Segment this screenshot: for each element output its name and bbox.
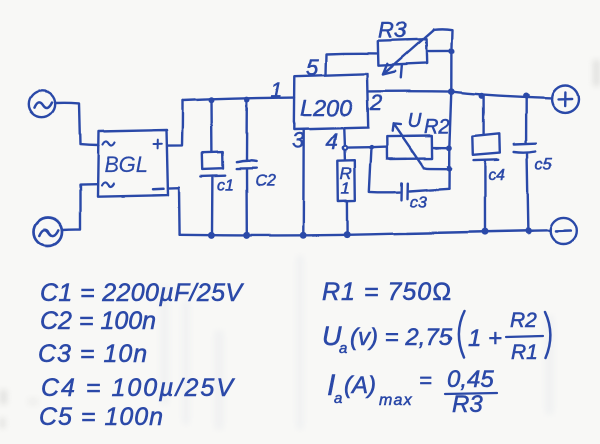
junction dot pin2 rail / C4 bbox=[479, 93, 485, 99]
AC input terminal TOP (source symbol) bbox=[29, 91, 55, 117]
junction dot bottom rail / C4 bbox=[482, 228, 489, 235]
junction dot bottom rail / pin3 bbox=[300, 232, 307, 239]
BGL pin mark ~ (top left) bbox=[103, 141, 115, 145]
svg-text:R1 = 750Ω: R1 = 750Ω bbox=[322, 278, 452, 306]
svg-text:a: a bbox=[339, 340, 347, 357]
svg-text:3: 3 bbox=[292, 128, 305, 153]
resistor R2 (adjustable) bbox=[387, 123, 432, 167]
pin 5 wire bbox=[326, 53, 377, 74]
svg-text:=: = bbox=[419, 368, 432, 393]
wire R2 wiper bottom bbox=[424, 166, 448, 169]
junction dot bottom rail / C5 bbox=[525, 227, 532, 234]
pin 2 rail wire to + terminal bbox=[368, 91, 551, 98]
capacitor C2 bbox=[237, 100, 256, 235]
svg-text:c3: c3 bbox=[410, 194, 427, 211]
svg-text:BGL: BGL bbox=[104, 152, 148, 177]
junction dot bottom rail / C1 bbox=[208, 232, 215, 239]
wire R3 right terminal bbox=[426, 50, 451, 53]
svg-text:1: 1 bbox=[341, 179, 350, 198]
svg-text:1 +: 1 + bbox=[468, 325, 502, 352]
svg-text:C1 = 2200µF/25V: C1 = 2200µF/25V bbox=[40, 279, 244, 307]
svg-text:c5: c5 bbox=[535, 156, 552, 173]
svg-text:R3: R3 bbox=[378, 18, 407, 43]
svg-text:(v) = 2,75: (v) = 2,75 bbox=[350, 324, 453, 351]
svg-text:max: max bbox=[379, 392, 413, 409]
svg-text:R2: R2 bbox=[510, 309, 537, 332]
svg-text:L200: L200 bbox=[300, 95, 352, 121]
pin 4 node (open circle) bbox=[343, 146, 347, 150]
BGL pin mark - (bottom right) bbox=[153, 187, 164, 190]
svg-text:C5 = 100n: C5 = 100n bbox=[39, 403, 164, 431]
svg-text:R1: R1 bbox=[511, 341, 538, 364]
bottom rail wire bbox=[180, 230, 551, 235]
formula Ia max bbox=[327, 366, 497, 418]
output terminal - bbox=[551, 217, 578, 244]
capacitor C4 (electrolytic) bbox=[472, 96, 500, 231]
wire right vertical pin2 rail down to C3 bbox=[449, 92, 451, 189]
svg-text:4: 4 bbox=[326, 129, 338, 154]
svg-text:5: 5 bbox=[306, 55, 319, 80]
wire AC2 to bridge bbox=[62, 184, 98, 230]
capacitor C3 bbox=[369, 149, 449, 200]
junction dot R2 wiper bbox=[446, 165, 452, 171]
BGL pin mark ~ (bottom left) bbox=[102, 182, 114, 186]
svg-text:1: 1 bbox=[271, 79, 283, 102]
formula Ua bbox=[322, 309, 550, 364]
wire R3 node down to pin2 rail bbox=[450, 52, 453, 92]
paper shading / bleed-through (decorative) bbox=[160, 255, 554, 430]
wire AC1 to bridge bbox=[56, 103, 99, 146]
svg-text:c4: c4 bbox=[488, 167, 505, 184]
svg-text:c1: c1 bbox=[217, 177, 234, 194]
capacitor C5 bbox=[514, 96, 536, 231]
svg-text:a: a bbox=[334, 390, 342, 407]
svg-text:C4 = 100µ/25V: C4 = 100µ/25V bbox=[41, 374, 235, 402]
wire BGL- down to bottom rail bbox=[168, 187, 180, 235]
svg-text:0,45: 0,45 bbox=[447, 366, 494, 393]
junction dot pin2 rail / C5 bbox=[523, 93, 529, 99]
junction dot bottom rail / C2 bbox=[243, 232, 250, 239]
svg-text:U: U bbox=[407, 110, 422, 132]
wire R3 wiper top to right vertical bbox=[434, 29, 452, 51]
wire node to R2 bbox=[348, 147, 387, 148]
pin 4 wire down to node bbox=[343, 129, 346, 145]
wire R2 right terminal bbox=[432, 146, 448, 148]
junction dot node / C3 branch bbox=[369, 145, 374, 150]
junction dot R3 right bbox=[448, 49, 454, 55]
regulator U1 L200 bbox=[294, 74, 368, 130]
svg-text:2: 2 bbox=[369, 90, 382, 115]
wire top rail to L200 pin1 bbox=[183, 98, 295, 101]
svg-text:C2: C2 bbox=[255, 173, 276, 190]
svg-text:R2: R2 bbox=[424, 116, 450, 138]
output terminal + bbox=[552, 85, 579, 112]
svg-text:R3: R3 bbox=[452, 391, 483, 418]
svg-text:C3 = 10n: C3 = 10n bbox=[38, 340, 148, 368]
AC input terminal BOTTOM (source symbol) bbox=[34, 218, 62, 246]
pin 3 wire down to bottom rail bbox=[302, 129, 305, 235]
wire BGL+ up to top rail bbox=[168, 101, 183, 146]
svg-text:C2 = 100n: C2 = 100n bbox=[40, 307, 156, 335]
capacitor C1 (electrolytic) bbox=[200, 100, 225, 234]
junction dot top rail / C2 bbox=[244, 97, 250, 103]
bridge rectifier BGL bbox=[98, 130, 169, 196]
svg-text:(A): (A) bbox=[344, 372, 376, 399]
resistor R1 bbox=[338, 150, 356, 233]
junction dot bottom rail / R1 bbox=[344, 231, 351, 238]
junction dot R2 right bbox=[446, 145, 452, 151]
BGL pin mark + (top right) bbox=[154, 140, 162, 149]
junction dot pin2 rail / R3R2 vertical bbox=[448, 88, 455, 95]
resistor R3 (adjustable) bbox=[378, 30, 434, 78]
junction dot top rail / C1 bbox=[209, 97, 215, 103]
